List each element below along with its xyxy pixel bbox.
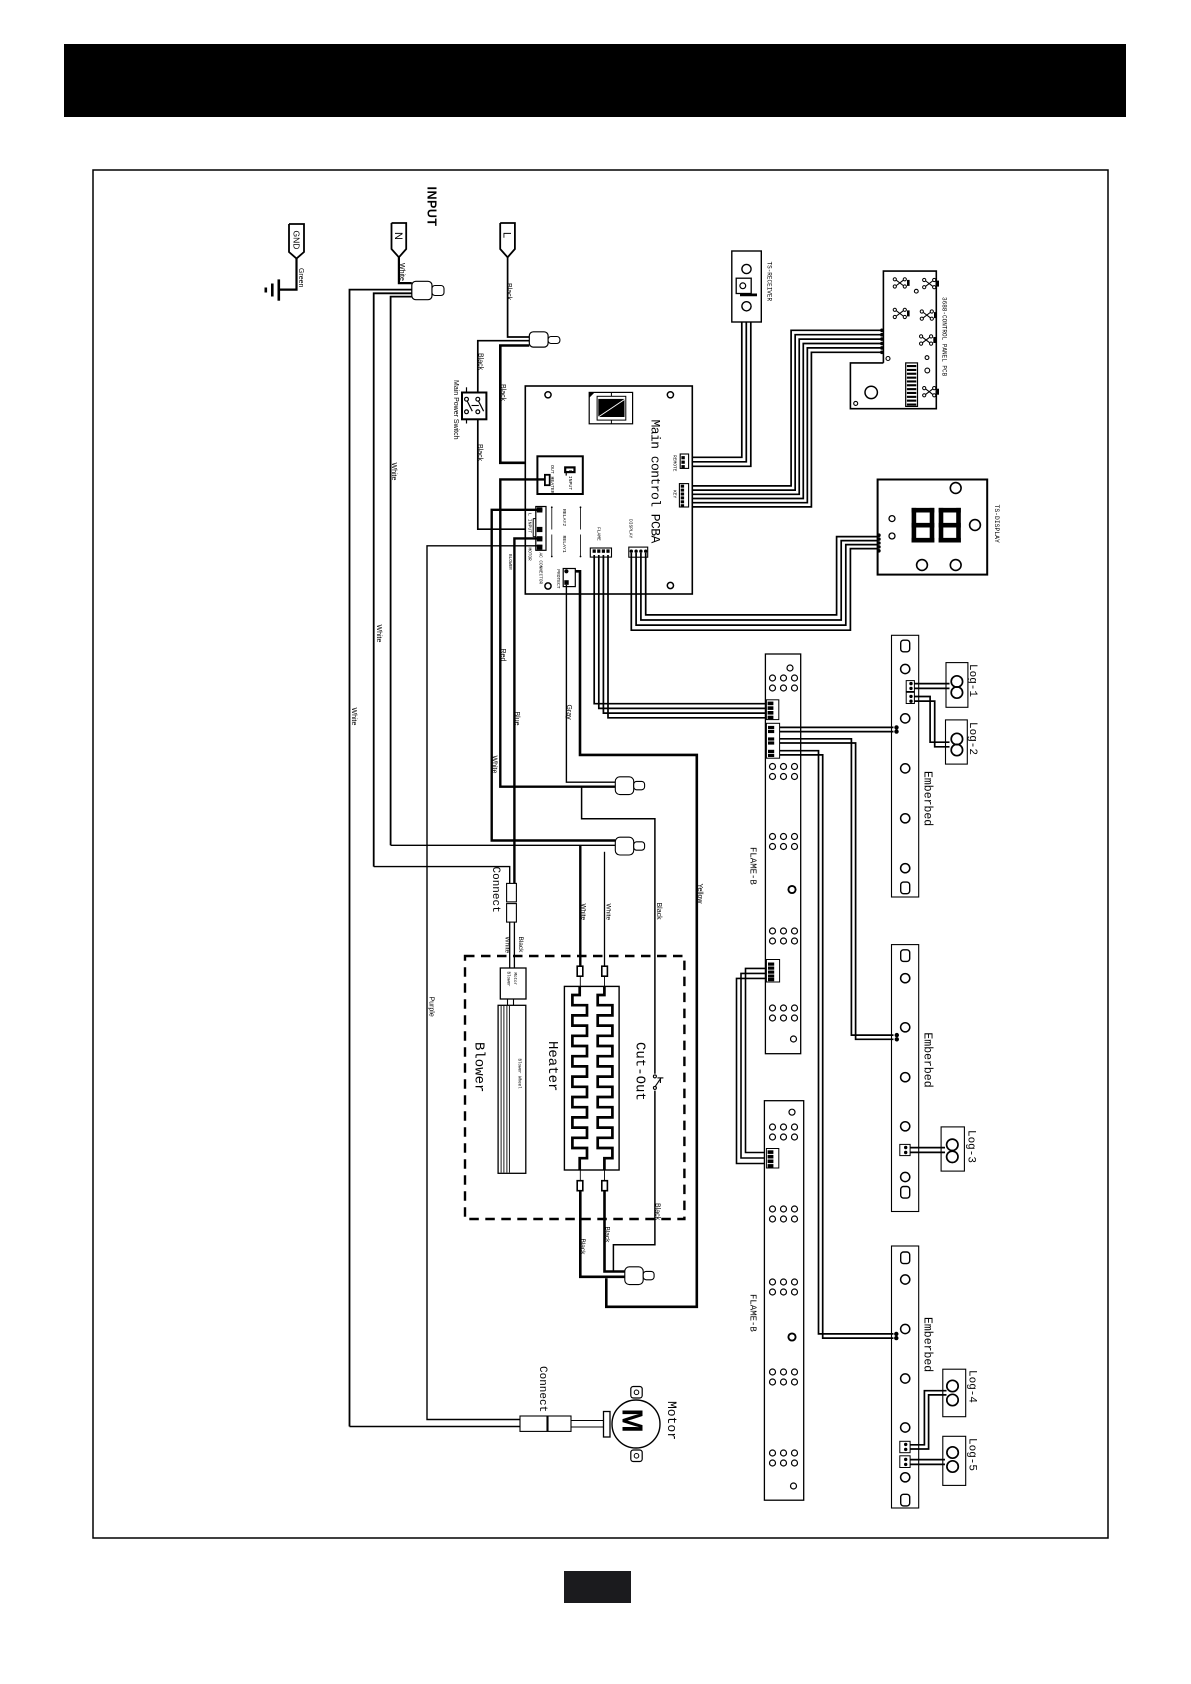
button S1 <box>893 278 909 288</box>
receiver wire 1 <box>689 322 742 457</box>
Emberbed1 connector block 1 <box>906 681 914 692</box>
svg-text:Gray: Gray <box>565 705 572 721</box>
FLAME-B board 2 <box>764 1101 803 1501</box>
Log-3 lamp <box>941 1127 964 1171</box>
svg-text:Connect: Connect <box>536 1366 548 1412</box>
panel pin header comb <box>906 363 918 407</box>
svg-text:White: White <box>390 463 397 481</box>
svg-text:Blue: Blue <box>513 712 520 726</box>
svg-text:White: White <box>490 756 497 774</box>
white wire bus3 into bullet splice 2 <box>391 844 616 846</box>
svg-text:N: N <box>392 232 404 240</box>
svg-text:Black: Black <box>655 903 662 921</box>
connector CN2 (L input splice) <box>529 332 548 347</box>
Log-5 lamp <box>943 1436 966 1485</box>
bullet splice 1 <box>615 777 633 795</box>
svg-text:3688-CONTROL PANEL PCB: 3688-CONTROL PANEL PCB <box>940 297 947 377</box>
Blower Wheel <box>498 1005 526 1173</box>
PCB mounting hole 1 <box>545 392 551 398</box>
svg-text:MOTOR: MOTOR <box>526 548 531 562</box>
Emberbed3 connector block 1 <box>900 1441 910 1452</box>
white bus wire 1 into CN1 <box>350 290 412 1427</box>
net flag L (line) <box>500 223 515 257</box>
board1 LED pads group C <box>770 834 776 840</box>
PCB mounting hole 2 <box>667 392 673 398</box>
blower motor leads <box>509 922 511 968</box>
svg-text:M: M <box>616 1409 648 1433</box>
svg-text:TS-DISPLAY: TS-DISPLAY <box>993 505 1000 544</box>
wire GND flag to earth <box>279 259 297 290</box>
black wire bullet1 to cut-out to bullet3 <box>582 787 655 1074</box>
board1 LED pads group E <box>770 1005 776 1011</box>
board2 LED pads group C <box>770 1279 776 1285</box>
CN3 pin1 <box>537 507 543 512</box>
svg-text:Black: Black <box>517 937 524 954</box>
svg-text:Emberbed: Emberbed <box>920 1032 933 1087</box>
wire CN2 to main power switch <box>478 341 530 393</box>
board1 input connector <box>766 700 778 720</box>
heater terminal bottom 1 <box>579 1170 581 1181</box>
main power switch SW1 <box>462 393 486 420</box>
heater terminal top 1 <box>577 966 583 976</box>
relay outline RELAY2 <box>551 507 553 529</box>
motor tab bottom <box>631 1450 642 1462</box>
svg-text:Black: Black <box>476 444 483 462</box>
REMOTE connector J1 <box>680 454 688 468</box>
svg-text:RELAY2: RELAY2 <box>561 509 567 526</box>
svg-text:KEY: KEY <box>672 490 678 499</box>
panel hole c <box>925 356 929 360</box>
panel hole d <box>925 368 930 373</box>
button S4 <box>920 310 936 320</box>
board1 LED pads group B <box>770 764 776 770</box>
svg-text:Emberbed: Emberbed <box>920 1317 933 1372</box>
Emberbed3 connector block 2 <box>900 1456 910 1468</box>
board2 LED pads group B <box>770 1206 776 1212</box>
svg-text:Motor: Motor <box>512 973 516 986</box>
svg-text:Black: Black <box>603 1227 610 1244</box>
board2 ring pad <box>788 1333 795 1340</box>
diagram border frame <box>93 170 1108 1538</box>
svg-text:REMOTE: REMOTE <box>672 455 678 472</box>
svg-text:Main control PCBA: Main control PCBA <box>648 420 663 544</box>
white bus wire 2 into CN1 <box>374 293 412 866</box>
Emberbed board 2 <box>892 945 919 1212</box>
white bus wire 1 to motor connect <box>350 1426 521 1428</box>
svg-text:White: White <box>375 625 382 643</box>
wire switch to L INPUT pin2 (black) <box>478 419 537 529</box>
board2 LED pads group D <box>770 1369 776 1375</box>
bottom footer block <box>564 1571 631 1603</box>
CN3 pin2 <box>537 527 543 532</box>
Log-3 wire pair <box>910 1147 945 1149</box>
svg-text:FLAME-B: FLAME-B <box>748 847 758 885</box>
button S2 <box>923 278 939 288</box>
DISPLAY connector J4 <box>629 547 648 557</box>
Log-1 wire pair <box>914 683 949 685</box>
blower assembly dashed box <box>465 956 684 1219</box>
CN3 pin4 <box>537 545 543 550</box>
purple wire PCB pin4 to motor <box>427 546 542 1420</box>
black wire heater T1 to bullet splice 3 <box>580 1191 625 1277</box>
svg-text:Black: Black <box>505 283 512 301</box>
board1 ring pad <box>788 886 795 893</box>
TS-DISPLAY board <box>878 480 988 575</box>
svg-text:RELAY1: RELAY1 <box>561 536 567 553</box>
svg-text:Log-2: Log-2 <box>966 722 978 755</box>
board2 top hole <box>789 1109 795 1115</box>
button S3 <box>893 308 909 318</box>
svg-text:White: White <box>580 904 587 921</box>
heater element coil A <box>572 986 587 1170</box>
svg-text:TS-RECEIVER: TS-RECEIVER <box>765 262 772 302</box>
connector CN1 (N input splice) <box>412 281 432 299</box>
svg-text:Heater: Heater <box>544 1041 560 1091</box>
wire pair board1 to Emberbed 3 <box>780 751 894 1334</box>
white wire bullet2 to heater terminal 1 <box>579 845 581 966</box>
wire pair board1 to Emberbed 2 <box>780 739 894 1035</box>
svg-text:BLOWER: BLOWER <box>507 554 512 570</box>
blue wire PCB pin3 to blower connector <box>514 538 542 883</box>
Log-2 wire pair <box>914 697 949 743</box>
Log-4 wire pair <box>910 1391 946 1445</box>
FLAME wire bundle to FLAME-B board <box>594 555 765 704</box>
KEY connector J2 <box>679 484 688 507</box>
display hole 3 <box>917 560 928 571</box>
TS-RECEIVER board <box>732 251 762 322</box>
svg-text:Blower: Blower <box>505 972 510 988</box>
white wire bus2 to blower inline connector <box>374 867 510 884</box>
svg-text:Green: Green <box>297 268 304 288</box>
motor inline connector <box>520 1416 547 1431</box>
Emberbed board 3 <box>892 1246 919 1508</box>
button S5 <box>920 335 936 345</box>
svg-text:Log-5: Log-5 <box>966 1438 978 1471</box>
svg-text:White: White <box>350 708 357 726</box>
svg-text:DISPLAY: DISPLAY <box>627 519 633 539</box>
svg-text:Log-4: Log-4 <box>966 1370 978 1403</box>
svg-text:Yellow: Yellow <box>696 884 703 905</box>
board1 LED pads group D <box>770 928 776 934</box>
Emberbed1 connector block 2 <box>906 692 914 703</box>
title banner (solid black) <box>64 44 1126 117</box>
display connector pins <box>877 533 881 537</box>
svg-text:GND: GND <box>292 231 302 250</box>
relay outline RELAY1 <box>551 535 553 557</box>
Emberbed board 1 <box>892 635 919 897</box>
svg-text:Connect: Connect <box>489 867 501 913</box>
svg-text:FLAME-B: FLAME-B <box>748 1294 758 1332</box>
svg-text:L: L <box>501 232 513 238</box>
wire bundle board1 to board2 <box>746 968 767 1152</box>
button S6 <box>923 387 939 397</box>
svg-text:Motor: Motor <box>664 1401 679 1440</box>
yellow wire PROTECT pin1 to bullet splice 3 <box>575 571 697 1307</box>
board1 lower connector <box>766 960 779 983</box>
wire CN2 to L INPUT terminal (black) <box>500 346 569 468</box>
panel corner hole <box>854 401 858 405</box>
svg-text:Black: Black <box>579 1239 586 1256</box>
svg-text:Log-1: Log-1 <box>966 664 978 697</box>
svg-text:Main Power Switch: Main Power Switch <box>452 380 459 440</box>
OUT HEATER / L INPUT sub-box <box>537 456 582 494</box>
7-segment digit 2 <box>939 508 961 543</box>
panel buzzer <box>865 386 877 398</box>
board1 output connector <box>766 723 779 758</box>
panel wire solder dots <box>880 329 884 333</box>
Main control PCBA board <box>525 386 692 594</box>
Log-1 lamp <box>946 663 968 708</box>
motor tab top <box>631 1387 642 1399</box>
7-segment digit 1 <box>912 508 935 543</box>
svg-text:FLAME: FLAME <box>596 527 602 541</box>
PCB mounting hole 4 <box>667 582 673 588</box>
wire L flag down to connector CN2 <box>508 257 530 337</box>
L INPUT terminal <box>565 467 574 472</box>
FLAME connector J3 <box>590 548 611 557</box>
Blower Motor box <box>500 968 526 999</box>
Log-4 lamp <box>943 1369 966 1417</box>
svg-text:Black: Black <box>476 353 483 371</box>
svg-text:Blower Wheel: Blower Wheel <box>517 1059 522 1090</box>
svg-text:White: White <box>398 263 405 281</box>
key wires panel to main PCB <box>689 330 881 486</box>
svg-text:Purple: Purple <box>427 997 434 1017</box>
net flag N (neutral) <box>392 223 407 257</box>
svg-text:OUT HEATER: OUT HEATER <box>549 465 555 494</box>
wire pair board1 to Emberbed 1 <box>780 726 894 728</box>
gray wire PROTECT pin2 to bullet splice 1 <box>566 585 615 782</box>
PROTECT component <box>563 569 575 587</box>
bullet splice 3 <box>625 1267 643 1285</box>
display hole 2 <box>970 520 981 531</box>
blower inline connector <box>507 883 517 902</box>
board2 input connector <box>766 1149 778 1169</box>
FLAME-B board 1 <box>765 654 800 1054</box>
Emberbed2 connector block <box>900 1144 910 1155</box>
net flag GND <box>289 224 304 259</box>
Log-5 wire pair <box>910 1459 945 1461</box>
receiver wire 3 <box>689 322 751 466</box>
fuse F1 <box>545 475 550 485</box>
board1 top hole <box>787 665 793 671</box>
heater element coil B <box>598 986 613 1170</box>
bullet splice 2 <box>615 837 633 855</box>
3688-CONTROL PANEL PCB outline <box>850 271 936 409</box>
panel hole b <box>886 357 890 361</box>
board1 bottom hole <box>791 1036 797 1042</box>
earth ground symbol <box>277 279 280 300</box>
receiver wire 2 <box>689 322 747 462</box>
board2 bottom hole <box>791 1483 797 1489</box>
svg-text:White: White <box>604 904 611 921</box>
panel hole a <box>914 289 918 293</box>
white bus wire 3 into CN1 <box>391 297 412 846</box>
white wire bullet2 to heater terminal 2 <box>604 852 606 966</box>
wire N flag to connector <box>399 257 412 283</box>
svg-text:PROTECT: PROTECT <box>555 569 561 589</box>
heater terminal bottom 2 <box>604 1170 606 1181</box>
svg-text:Black: Black <box>499 384 506 402</box>
blower motor to wheel links <box>507 999 509 1005</box>
board2 LED pads group A <box>770 1124 776 1130</box>
display hole 4 <box>950 560 961 571</box>
svg-text:INPUT: INPUT <box>425 187 439 227</box>
board1 LED pads group A <box>770 675 776 681</box>
PCB mounting hole 3 <box>545 583 551 589</box>
red wire fuse to bullet splice 1 <box>500 479 615 786</box>
heater element housing <box>564 986 619 1170</box>
white wire PCB pin1 to bullet splice 2 <box>492 510 616 841</box>
Log-2 lamp <box>946 720 968 764</box>
motor M1 <box>604 1412 611 1438</box>
CN3 pin3 <box>537 536 543 541</box>
heater terminal top 2 <box>602 966 608 976</box>
svg-text:AC CONNECTOR: AC CONNECTOR <box>537 553 542 585</box>
board2 LED pads group E <box>770 1450 776 1456</box>
svg-text:L INPUT: L INPUT <box>526 513 532 533</box>
display hole 1 <box>950 483 961 494</box>
transformer T1 <box>589 392 632 423</box>
svg-text:Blower: Blower <box>470 1042 486 1092</box>
black wire heater T2 to bullet splice 3 <box>605 1191 625 1272</box>
svg-text:Emberbed: Emberbed <box>920 771 933 826</box>
svg-text:L INPUT: L INPUT <box>567 470 573 490</box>
svg-text:Log-3: Log-3 <box>965 1130 977 1163</box>
cut-out thermal switch <box>653 1075 656 1078</box>
L INPUT connector block CN3 <box>536 507 546 551</box>
svg-text:Cut-Out: Cut-Out <box>631 1042 647 1101</box>
display pad 2 <box>889 533 895 539</box>
svg-text:Red: Red <box>499 649 506 662</box>
display pad 1 <box>889 516 895 522</box>
DISPLAY wire bundle to TS-DISPLAY <box>631 549 877 631</box>
